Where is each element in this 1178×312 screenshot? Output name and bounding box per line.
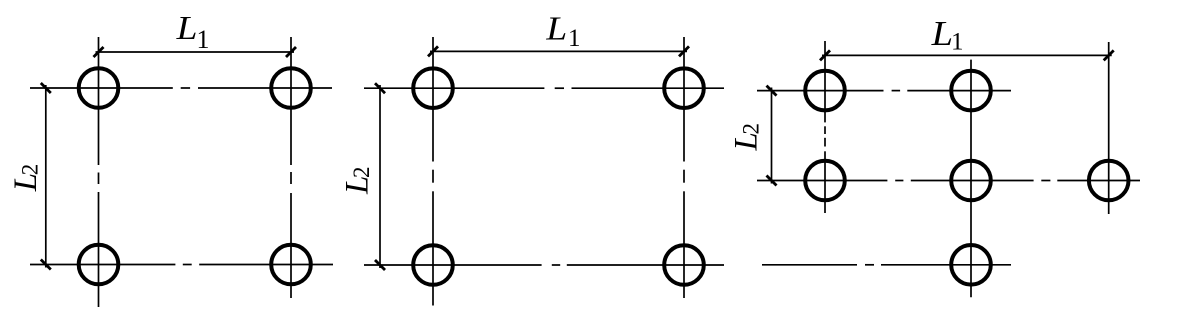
svg-text:L: L	[176, 9, 198, 47]
svg-text:2: 2	[17, 164, 42, 176]
svg-text:2: 2	[739, 123, 764, 135]
svg-text:1: 1	[951, 29, 964, 56]
svg-text:L: L	[545, 9, 567, 47]
svg-text:1: 1	[568, 25, 581, 52]
svg-text:2: 2	[349, 167, 374, 179]
svg-text:L: L	[931, 14, 953, 53]
svg-text:1: 1	[197, 25, 210, 54]
